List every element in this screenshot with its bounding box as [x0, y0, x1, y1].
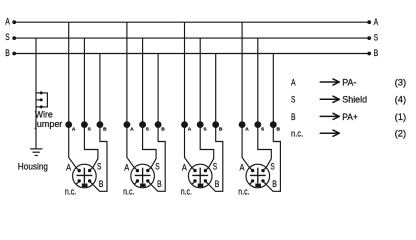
wire: bus line B — [14, 53, 369, 55]
node: jumper terminal dot 3 — [40, 105, 43, 108]
wire: jumper terminal stub 2 — [36, 99, 41, 101]
pin 3 of X2 (upper-left, A) — [134, 168, 137, 171]
node: jumper terminal dot 2 — [40, 98, 43, 101]
node A (right terminal dot) — [367, 20, 371, 24]
node: terminal dot S (X3) — [197, 121, 204, 128]
svg-text:A: A — [182, 163, 187, 174]
legend arrow (S) — [320, 96, 339, 102]
svg-text:n.c.: n.c. — [291, 129, 303, 140]
node B (right terminal dot) — [367, 52, 371, 56]
legend arrow (A) — [320, 79, 339, 85]
connector X3 (M12 socket face) — [188, 164, 212, 188]
wire: bus line A — [14, 21, 369, 23]
node: terminal dot A (X2) — [124, 121, 131, 128]
svg-text:A: A — [5, 16, 10, 26]
wire: PA- drop (bus A to connector X1 pin 3) — [69, 22, 76, 168]
node: terminal dot A (X4) — [239, 121, 246, 128]
connector X3 polarity cross — [192, 168, 208, 184]
svg-text:(1): (1) — [395, 112, 407, 123]
connector X4 keying notch — [255, 184, 261, 188]
svg-text:B: B — [219, 127, 223, 133]
wire jumper (bracket linking terminal 1 to terminal 3) — [41, 93, 47, 107]
connector X2 (M12 socket face) — [131, 164, 155, 188]
pin 3 of X4 (upper-left, A) — [249, 168, 252, 171]
node: terminal dot B (X4) — [270, 121, 277, 128]
wire: shield drop (bus S to connector X4 pin 4) — [258, 38, 272, 168]
node: terminal dot S (X1) — [81, 121, 88, 128]
svg-text:B: B — [215, 179, 220, 190]
node: terminal dot B (X1) — [97, 121, 104, 128]
connector X1 polarity cross — [77, 168, 93, 184]
svg-text:n.c.: n.c. — [123, 186, 134, 196]
pin 4 of X1 (upper-right, S) — [90, 168, 93, 171]
svg-text:S: S — [213, 162, 217, 173]
node B (left terminal dot) — [12, 52, 16, 56]
svg-text:B: B — [103, 127, 107, 133]
node S (left terminal dot) — [12, 36, 16, 40]
wire: PA+ drop (bus B to connector X3 pin 1) — [209, 54, 223, 192]
pin 1 of X4 (lower-right, B) — [263, 181, 266, 184]
ground (housing earth symbol) — [30, 149, 42, 156]
pin 4 of X3 (upper-right, S) — [205, 168, 208, 171]
pin 4 of X2 (upper-right, S) — [148, 168, 151, 171]
legend arrow (B) — [320, 113, 339, 119]
connector X4 (M12 socket face) — [246, 164, 270, 188]
connector X2 keying notch — [140, 184, 146, 188]
wire: shield drop (bus S to connector X1 pin 4) — [84, 38, 98, 168]
svg-text:S: S — [270, 162, 274, 173]
pin 1 of X2 (lower-right, B) — [148, 181, 151, 184]
wire: PA+ drop (bus B to connector X2 pin 1) — [151, 54, 165, 192]
wire: jumper terminal stub 3 — [36, 106, 41, 108]
connector X1 keying notch — [82, 184, 88, 188]
svg-text:A: A — [66, 163, 71, 174]
wire: shield drop (bus S to connector X3 pin 4) — [200, 38, 214, 168]
svg-text:n.c.: n.c. — [65, 186, 76, 196]
wire: PA- drop (bus A to connector X4 pin 3) — [242, 22, 249, 168]
connector X3 keying notch — [198, 184, 204, 188]
svg-text:A: A — [240, 163, 245, 174]
node: terminal dot S (X2) — [139, 121, 146, 128]
svg-text:B: B — [5, 48, 10, 58]
connector X1 (M12 socket face) — [73, 164, 97, 188]
svg-text:B: B — [161, 127, 165, 133]
wire: PA+ drop (bus B to connector X4 pin 1) — [266, 54, 280, 192]
pin 2 of X4 (lower-left, n.c.) — [249, 181, 252, 184]
wire: PA+ drop (bus B to connector X1 pin 1) — [93, 54, 107, 192]
svg-text:A: A — [291, 77, 296, 88]
svg-text:S: S — [5, 32, 9, 42]
svg-text:B: B — [291, 112, 296, 123]
node A (left terminal dot) — [12, 20, 16, 24]
pin 1 of X3 (lower-right, B) — [205, 181, 208, 184]
svg-text:(4): (4) — [395, 95, 407, 106]
pin 2 of X2 (lower-left, n.c.) — [134, 181, 137, 184]
node: jumper terminal dot 1 — [40, 91, 43, 94]
pin 2 of X1 (lower-left, n.c.) — [76, 181, 79, 184]
svg-text:PA+: PA+ — [342, 112, 358, 123]
svg-text:Housing: Housing — [18, 162, 48, 173]
node: terminal dot B (X3) — [212, 121, 219, 128]
svg-text:A: A — [124, 163, 129, 174]
node: terminal dot B (X2) — [155, 121, 162, 128]
svg-text:A: A — [72, 127, 76, 133]
svg-text:S: S — [155, 162, 159, 173]
svg-text:B: B — [157, 179, 162, 190]
legend arrow (n.c.) — [320, 130, 339, 136]
svg-text:B: B — [374, 48, 379, 58]
node: terminal dot A (X1) — [65, 121, 72, 128]
svg-text:jumper: jumper — [34, 119, 62, 130]
wire: bus line S — [14, 37, 369, 39]
svg-text:B: B — [277, 127, 281, 133]
svg-text:(3): (3) — [395, 77, 407, 88]
node: terminal dot S (X4) — [254, 121, 261, 128]
svg-text:A: A — [188, 127, 192, 133]
node: terminal dot A (X3) — [181, 121, 188, 128]
pin 4 of X4 (upper-right, S) — [263, 168, 266, 171]
connector X4 polarity cross — [250, 168, 266, 184]
wire: PA- drop (bus A to connector X2 pin 3) — [127, 22, 134, 168]
svg-text:A: A — [130, 127, 134, 133]
svg-text:B: B — [99, 179, 104, 190]
svg-text:(2): (2) — [395, 129, 407, 140]
svg-text:n.c.: n.c. — [181, 186, 192, 196]
svg-text:Shield: Shield — [342, 95, 367, 106]
pin 3 of X1 (upper-left, A) — [76, 168, 79, 171]
pin 3 of X3 (upper-left, A) — [192, 168, 195, 171]
svg-text:S: S — [97, 162, 101, 173]
wire: shield drop from bus S to housing ground — [35, 38, 37, 148]
svg-text:A: A — [245, 127, 249, 133]
node S (right terminal dot) — [367, 36, 371, 40]
wire: shield drop (bus S to connector X2 pin 4) — [143, 38, 157, 168]
svg-text:B: B — [272, 179, 277, 190]
svg-text:PA-: PA- — [342, 77, 356, 88]
svg-text:A: A — [374, 17, 379, 27]
pin 2 of X3 (lower-left, n.c.) — [192, 181, 195, 184]
svg-text:S: S — [291, 95, 295, 106]
connector X2 polarity cross — [135, 168, 151, 184]
pin 1 of X1 (lower-right, B) — [90, 181, 93, 184]
wire: PA- drop (bus A to connector X3 pin 3) — [185, 22, 192, 168]
wire: jumper terminal stub 1 — [36, 92, 41, 94]
svg-text:S: S — [374, 33, 378, 43]
svg-text:n.c.: n.c. — [238, 186, 249, 196]
